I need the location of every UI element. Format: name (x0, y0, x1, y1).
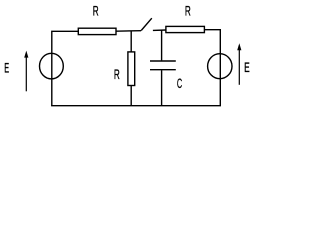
svg-text:E: E (244, 60, 250, 75)
svg-text:R: R (185, 4, 191, 19)
capacitor C top plate (150, 60, 176, 62)
wire: R3 top lead (130, 31, 132, 52)
resistor R1 (top left) (78, 28, 116, 34)
capacitor C bottom plate (150, 69, 176, 71)
wire: R1 to switch pivot (116, 30, 141, 33)
wire: capacitor bottom lead (161, 70, 163, 106)
wire: capacitor top lead (161, 30, 163, 60)
resistor R3 (vertical middle) (128, 52, 135, 86)
resistor R2 (top right) (166, 26, 205, 32)
wire: top-left horizontal + left rail (52, 31, 79, 105)
wire: R2 to right corner + right rail (204, 30, 220, 106)
wire: switch to R2 (153, 29, 166, 31)
svg-text:R: R (93, 3, 99, 18)
source E2 circle (right) (208, 54, 232, 79)
wire: bottom rail (51, 105, 221, 107)
svg-text:R: R (114, 67, 120, 82)
arrow for E1 (left, pointing up) (25, 53, 27, 91)
switch S1 blade (open) (141, 18, 152, 30)
svg-text:E: E (4, 61, 9, 76)
arrow for E2 (right, pointing up) (238, 46, 240, 85)
svg-text:C: C (177, 76, 182, 91)
wire: R3 bottom lead (130, 86, 132, 106)
source E1 circle (left) (40, 53, 64, 79)
